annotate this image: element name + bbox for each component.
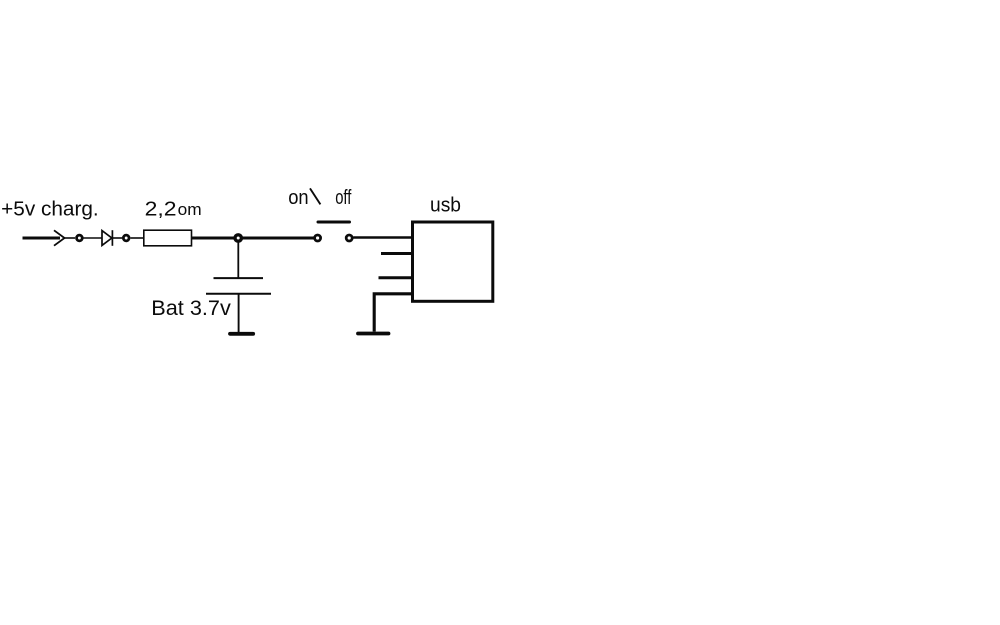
usb connector J1 [413, 222, 493, 301]
arrow input direction [54, 230, 65, 245]
battery BT1 positive plate [214, 277, 264, 279]
wire terminal to diode [84, 237, 102, 239]
ground usb [358, 332, 389, 336]
wire diode to terminal [113, 237, 122, 239]
label on\ off [288, 187, 352, 209]
battery BT1 negative plate [206, 293, 271, 295]
wire resistor to switch [192, 237, 315, 240]
wire switch to usb [354, 236, 414, 238]
svg-text:om: om [178, 201, 202, 219]
svg-text:off: off [335, 187, 352, 209]
wire input [23, 237, 61, 240]
wire terminal to resistor [131, 237, 145, 239]
terminal T2 [123, 235, 129, 241]
svg-text:+5v charg.: +5v charg. [1, 197, 99, 220]
terminal T1 [77, 235, 83, 241]
usb pin stub 1 [381, 252, 412, 255]
svg-text:Bat 3.7v: Bat 3.7v [151, 296, 231, 320]
switch terminal left [315, 235, 321, 241]
wire junction to battery [237, 241, 239, 278]
resistor R1 [144, 230, 192, 246]
wire battery to ground [238, 294, 240, 332]
usb pin stub 2 [379, 276, 413, 279]
switch S1 blade [318, 221, 350, 224]
junction node [235, 235, 241, 241]
wire usb to ground [374, 294, 412, 332]
switch terminal right [346, 235, 352, 241]
wire arrow to terminal [65, 237, 76, 239]
diode D1 [102, 230, 112, 246]
ground battery [230, 332, 253, 336]
label 2,2om [145, 197, 202, 220]
svg-text:usb: usb [430, 194, 461, 217]
svg-text:2,2: 2,2 [145, 197, 177, 220]
svg-text:on: on [288, 187, 308, 209]
